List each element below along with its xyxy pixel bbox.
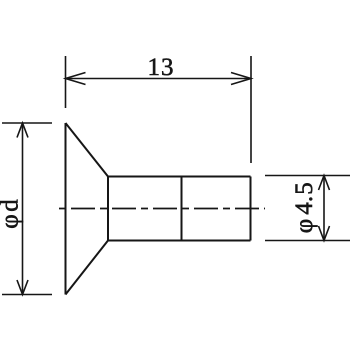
svg-text:13: 13 bbox=[148, 54, 175, 81]
dim 13: left arrowhead bbox=[66, 73, 86, 85]
svg-text:.: . bbox=[291, 196, 318, 202]
shank top edge bbox=[108, 176, 251, 178]
dim phi-d: bottom arrowhead bbox=[17, 280, 28, 295]
head top slant bbox=[66, 123, 109, 177]
dim phi-d: top arrowhead bbox=[17, 123, 28, 138]
dim text phi-d bbox=[0, 199, 24, 229]
dim phi-4.5: top extension line bbox=[265, 175, 350, 177]
dim phi-4.5: dimension line bbox=[323, 176, 325, 241]
head/shank junction line bbox=[107, 177, 109, 241]
svg-text:φ: φ bbox=[0, 214, 24, 228]
dim 13: left extension line bbox=[65, 56, 67, 108]
dim phi-4.5: bottom extension line bbox=[265, 240, 350, 242]
dim phi-d: bottom extension line bbox=[2, 294, 52, 296]
head left face bbox=[65, 123, 67, 295]
dim 13: right arrowhead bbox=[231, 73, 251, 85]
svg-text:5: 5 bbox=[291, 182, 318, 195]
head bottom slant bbox=[66, 241, 109, 295]
svg-text:φ: φ bbox=[291, 219, 318, 233]
shank mid line bbox=[181, 177, 183, 241]
dim 13: right extension line bbox=[250, 56, 252, 163]
dim text phi-4.5 bbox=[291, 182, 318, 233]
shank bottom edge bbox=[108, 240, 251, 242]
center line (dash-dot) bbox=[59, 208, 265, 210]
svg-text:4: 4 bbox=[291, 202, 318, 215]
dim phi-4.5: bottom arrowhead bbox=[319, 226, 330, 241]
dim phi-4.5: top arrowhead bbox=[319, 176, 330, 191]
dim phi-d: top extension line bbox=[2, 122, 52, 124]
part outline: countersunk rivet bbox=[66, 123, 251, 295]
shank end face bbox=[250, 177, 252, 241]
dim phi-d: dimension line bbox=[22, 123, 24, 295]
dim 13: dimension line bbox=[66, 78, 252, 80]
svg-text:d: d bbox=[0, 199, 24, 212]
